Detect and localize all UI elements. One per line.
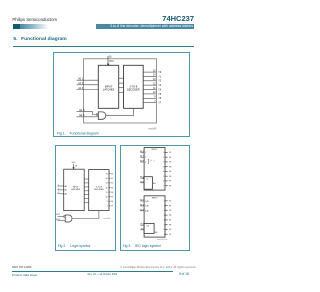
svg-text:A2 3: A2 3 <box>140 208 144 211</box>
VCC arrow <box>72 167 74 169</box>
svg-text:E1 5: E1 5 <box>140 177 144 179</box>
svg-text:VCC: VCC <box>109 61 114 63</box>
svg-text:Y0: Y0 <box>169 201 171 203</box>
svg-text:1,4D: 1,4D <box>145 201 149 203</box>
U2 output digits 0-7 <box>164 201 165 236</box>
svg-text:2: 2 <box>58 188 59 190</box>
VCC wire <box>73 164 75 168</box>
U1 wire E1 <box>140 177 144 179</box>
svg-text:LE 4: LE 4 <box>140 224 144 226</box>
U2 wire A2 <box>140 210 144 212</box>
svg-text:5: 5 <box>164 225 165 227</box>
inverter bubble on E1 <box>63 216 65 218</box>
U1 wire A2 <box>140 161 144 163</box>
output pin numbers 15,14,13,12,11,10,9,7 <box>153 70 156 103</box>
svg-text:10: 10 <box>106 197 108 199</box>
wire E1 <box>77 112 97 115</box>
svg-text:A0 1: A0 1 <box>78 78 84 81</box>
wire A1 <box>77 84 99 86</box>
svg-text:E2 6: E2 6 <box>140 181 144 183</box>
header gradient bar <box>13 24 20 29</box>
svg-text:A1 2: A1 2 <box>140 155 144 158</box>
svg-text:0: 0 <box>151 160 152 162</box>
svg-text:6: 6 <box>164 229 165 231</box>
wire A2 <box>57 193 63 195</box>
svg-text:16: 16 <box>75 165 77 167</box>
svg-text:Fig 2. Logic symbol: Fig 2. Logic symbol <box>58 244 91 248</box>
U2 wire A0 <box>140 200 144 202</box>
output wires Y0-Y7 <box>109 174 110 206</box>
IEC symbol U2 (bottom) <box>144 196 165 237</box>
svg-text:BIN/OCT: BIN/OCT <box>152 149 158 151</box>
svg-text:7: 7 <box>164 234 165 236</box>
svg-text:Y1: Y1 <box>169 205 171 207</box>
wire E2 <box>58 220 66 222</box>
section heading 5. Functional diagram <box>13 37 66 42</box>
svg-text:Y1: Y1 <box>158 76 162 78</box>
svg-text:15: 15 <box>106 174 108 176</box>
svg-text:Y6: Y6 <box>169 229 171 231</box>
svg-text:Y3: Y3 <box>169 215 171 217</box>
svg-text:Fig 3. IEC logic symbol: Fig 3. IEC logic symbol <box>123 244 161 248</box>
inverter bubble on E1 <box>96 114 98 116</box>
svg-text:Y7: Y7 <box>169 234 171 236</box>
U1 wire A0 <box>140 151 144 153</box>
U2 output wires <box>165 201 168 234</box>
svg-text:16: 16 <box>109 57 112 59</box>
svg-text:Y4: Y4 <box>169 220 171 222</box>
fig 3 frame <box>121 146 190 251</box>
svg-text:VCC: VCC <box>72 162 77 164</box>
svg-text:mna551001: mna551001 <box>157 239 168 241</box>
svg-text:Y5: Y5 <box>158 94 162 96</box>
fig 1 frame <box>54 53 190 137</box>
input latches box U1a <box>98 65 118 108</box>
svg-text:mna550: mna550 <box>103 218 111 220</box>
svg-text:1: 1 <box>145 152 146 154</box>
svg-text:Y2: Y2 <box>169 162 171 164</box>
svg-text:A0 1: A0 1 <box>140 199 144 202</box>
latch to decoder bus wires <box>119 78 124 92</box>
svg-text:2: 2 <box>164 210 165 212</box>
output labels Y0-Y7 <box>111 174 113 208</box>
wire A0 <box>77 79 99 81</box>
svg-text:3,4D: 3,4D <box>145 211 149 213</box>
svg-text:Y5: Y5 <box>169 176 171 178</box>
svg-text:mna549: mna549 <box>148 128 157 130</box>
svg-text:7: 7 <box>153 161 154 163</box>
svg-text:LATCHES: LATCHES <box>71 188 80 191</box>
footer product line <box>12 273 37 277</box>
svg-text:Y2: Y2 <box>169 210 171 212</box>
svg-text:11: 11 <box>106 192 108 194</box>
svg-text:3: 3 <box>163 167 164 169</box>
svg-text:0: 0 <box>163 152 164 154</box>
svg-text:4: 4 <box>164 220 165 222</box>
svg-text:Y7: Y7 <box>111 206 113 208</box>
wire E1 <box>58 216 64 218</box>
fig 2 frame <box>56 146 116 251</box>
svg-text:Y6: Y6 <box>111 201 113 203</box>
svg-text:Y4: Y4 <box>158 89 162 91</box>
input latches box <box>64 169 84 210</box>
svg-text:7: 7 <box>107 206 108 208</box>
svg-text:Y1: Y1 <box>169 157 171 159</box>
svg-text:Y3: Y3 <box>111 187 113 189</box>
svg-text:LATCHES: LATCHES <box>103 89 115 92</box>
svg-text:E1 5: E1 5 <box>80 110 86 112</box>
U1 wire A1 <box>140 156 144 158</box>
wire A1 <box>57 189 63 191</box>
U2 output labels Y0-Y7 overlined <box>169 201 171 236</box>
wire A2 <box>77 89 99 91</box>
U1 output wires <box>165 152 168 185</box>
decoder label <box>127 85 140 91</box>
svg-text:1: 1 <box>163 157 164 159</box>
svg-text:}: } <box>148 159 150 165</box>
svg-text:Fig 1. Functional diagram: Fig 1. Functional diagram <box>57 131 99 135</box>
U2 wire LE <box>140 224 144 226</box>
svg-text:DECODER: DECODER <box>94 189 104 191</box>
U1 output digits 0-7 <box>163 152 164 187</box>
svg-text:A1: A1 <box>65 189 67 192</box>
svg-text:14: 14 <box>106 178 108 180</box>
U1 output labels Y0-Y7 overlined <box>169 152 171 187</box>
svg-text:Y6: Y6 <box>158 98 162 100</box>
decoder label <box>94 186 104 191</box>
svg-text:Y0: Y0 <box>111 174 113 176</box>
footer rev line <box>88 273 118 276</box>
svg-text:2,4D: 2,4D <box>145 206 149 208</box>
svg-text:C4: C4 <box>147 225 149 227</box>
svg-text:3: 3 <box>164 215 165 217</box>
svg-text:3: 3 <box>58 192 59 194</box>
svg-text:6: 6 <box>163 181 164 183</box>
U2 wire A1 <box>140 205 144 207</box>
svg-text:12: 12 <box>106 187 108 189</box>
svg-text:1: 1 <box>164 205 165 207</box>
output labels Y0-Y7 <box>158 72 162 105</box>
U1 wire E2 <box>140 182 144 184</box>
footer copyright <box>0 266 196 269</box>
svg-text:6 E2: 6 E2 <box>56 219 60 221</box>
header subtitle bar <box>96 24 195 29</box>
svg-text:A2 3: A2 3 <box>140 160 144 163</box>
svg-text:E2 6: E2 6 <box>80 115 86 117</box>
svg-text:Y5: Y5 <box>169 225 171 227</box>
svg-text:5: 5 <box>163 176 164 178</box>
svg-text:Y3: Y3 <box>169 167 171 169</box>
svg-text:Y5: Y5 <box>111 197 113 199</box>
svg-text:Y4: Y4 <box>169 171 171 173</box>
svg-text:9: 9 <box>107 201 108 203</box>
svg-text:4: 4 <box>163 171 164 173</box>
input latches label <box>71 186 80 191</box>
svg-text:Y0: Y0 <box>169 152 171 154</box>
VCC wire <box>107 56 109 64</box>
IC outer rectangle <box>84 59 157 123</box>
and gate G1 <box>65 215 72 222</box>
svg-text:Y3: Y3 <box>158 85 162 87</box>
svg-text:Y7: Y7 <box>169 186 171 188</box>
footer rule <box>12 270 173 273</box>
output wires Y0-Y7 <box>143 72 156 103</box>
svg-text:1: 1 <box>58 184 59 186</box>
svg-text:E 5: E 5 <box>141 228 144 230</box>
wire A0 <box>57 185 63 187</box>
svg-text:A0: A0 <box>65 185 67 188</box>
header: Philips Semiconductors <box>12 17 57 22</box>
U2 wire EN <box>140 229 144 231</box>
svg-text:Y0: Y0 <box>158 72 162 74</box>
VCC arrow into latches <box>107 64 110 66</box>
3-to-8 decoder box <box>89 170 109 211</box>
footer order number <box>12 266 31 269</box>
svg-text:Y1: Y1 <box>111 178 113 180</box>
and gate G1 <box>98 112 105 119</box>
svg-text:A1 2: A1 2 <box>140 203 144 206</box>
svg-text:5 E1: 5 E1 <box>56 214 60 216</box>
header: 74HC237 part number <box>0 14 194 23</box>
svg-text:A0 1: A0 1 <box>140 150 144 153</box>
svg-text:&: & <box>147 179 149 181</box>
svg-text:Y4: Y4 <box>111 192 113 194</box>
IEC symbol U1 (top) <box>144 148 165 191</box>
heading rule <box>13 45 194 48</box>
svg-text:4: 4 <box>145 162 146 164</box>
svg-text:EN: EN <box>155 232 158 234</box>
svg-text:0: 0 <box>164 201 165 203</box>
svg-text:Y2: Y2 <box>158 81 162 83</box>
output pin numbers <box>106 174 108 208</box>
footer page number <box>179 272 189 276</box>
U1 E1 bubble <box>143 177 144 178</box>
svg-text:Y6: Y6 <box>169 181 171 183</box>
svg-text:2: 2 <box>163 162 164 164</box>
svg-text:7: 7 <box>163 186 164 188</box>
svg-text:Y7: Y7 <box>158 103 162 105</box>
svg-text:DECODER: DECODER <box>127 89 140 92</box>
svg-text:BIN/OCT: BIN/OCT <box>152 197 158 199</box>
svg-text:A2: A2 <box>65 193 67 196</box>
gate output wire to decoder <box>106 108 134 115</box>
U2 C4 sub-box <box>144 223 154 233</box>
svg-text:2: 2 <box>145 157 146 159</box>
svg-text:EN: EN <box>153 183 156 185</box>
svg-text:Y2: Y2 <box>111 183 113 185</box>
gate output wire to decoder <box>72 211 99 219</box>
latch to decoder ladder wires <box>84 179 89 203</box>
wire E2 <box>77 116 99 118</box>
svg-text:13: 13 <box>106 183 108 185</box>
svg-text:A1 2: A1 2 <box>78 82 84 85</box>
U1 EN sub-box <box>144 177 152 190</box>
3-to-8 decoder box U1b <box>124 65 144 108</box>
input latches label <box>103 85 115 91</box>
svg-text:A2 3: A2 3 <box>78 87 84 90</box>
